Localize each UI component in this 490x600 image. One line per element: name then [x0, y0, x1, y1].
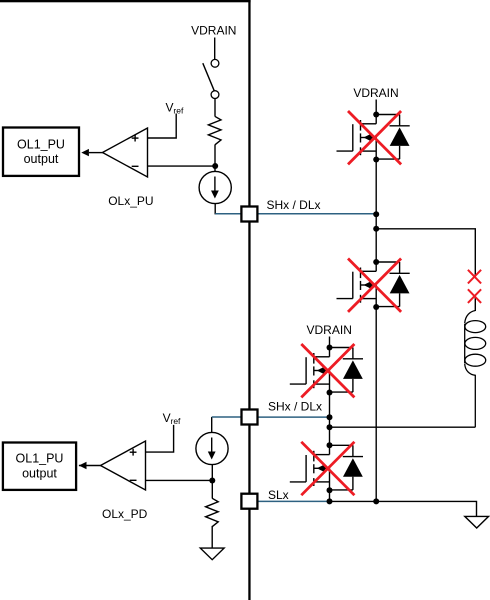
svg-text:V: V — [163, 411, 171, 425]
svg-text:VDRAIN: VDRAIN — [191, 24, 236, 38]
svg-text:SLx: SLx — [268, 488, 289, 502]
svg-text:output: output — [24, 152, 59, 166]
svg-text:V: V — [166, 101, 174, 115]
svg-text:VDRAIN: VDRAIN — [353, 86, 398, 100]
svg-text:OLx_PU: OLx_PU — [108, 194, 153, 208]
svg-text:output: output — [22, 466, 57, 480]
svg-text:OLx_PD: OLx_PD — [102, 507, 148, 521]
svg-text:SHx / DLx: SHx / DLx — [268, 400, 322, 414]
svg-text:ref: ref — [173, 106, 184, 116]
svg-text:OL1_PU: OL1_PU — [16, 452, 64, 466]
svg-text:ref: ref — [171, 416, 182, 426]
svg-text:VDRAIN: VDRAIN — [307, 323, 352, 337]
svg-text:SHx / DLx: SHx / DLx — [267, 198, 321, 212]
svg-text:OL1_PU: OL1_PU — [17, 137, 65, 151]
